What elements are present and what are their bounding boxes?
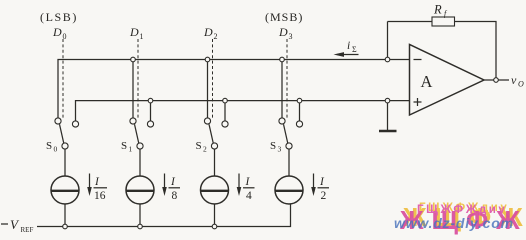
current source I/16 — [51, 174, 107, 205]
svg-text:v: v — [511, 73, 517, 87]
wire feedback top left segment — [388, 21, 433, 23]
svg-text:4: 4 — [246, 190, 252, 202]
wire S2 left throw drop — [207, 60, 209, 119]
node noninverting ground tap — [385, 98, 390, 103]
wire feedback left riser — [387, 22, 389, 58]
resistor Rf — [432, 17, 455, 26]
svg-text:3: 3 — [278, 145, 282, 154]
wire S3 left throw drop — [281, 60, 283, 119]
svg-text:(LSB): (LSB) — [40, 10, 78, 24]
wire I3 to rail — [37, 204, 291, 227]
svg-text:2: 2 — [203, 145, 207, 154]
wire D3 control (dashed) — [286, 39, 288, 118]
switch S1 — [121, 118, 154, 154]
node output — [494, 78, 499, 83]
wire I0 to rail — [64, 204, 66, 227]
wire D1 control (dashed) — [137, 39, 139, 118]
wire S1 right throw drop — [150, 101, 152, 121]
svg-text:Σ: Σ — [352, 45, 357, 54]
wire lower bus to op-amp noninverting input — [76, 101, 410, 121]
svg-text:3: 3 — [289, 32, 293, 41]
svg-text:S: S — [121, 140, 127, 152]
node junction bus1-S3 — [280, 57, 285, 62]
svg-text:2: 2 — [214, 32, 218, 41]
node rail-I0 — [63, 224, 68, 229]
svg-text:R: R — [433, 3, 442, 17]
svg-text:16: 16 — [94, 190, 106, 202]
svg-text:A: A — [421, 72, 433, 91]
op-amp A — [410, 45, 485, 116]
wire I2 to rail — [214, 204, 216, 227]
svg-text:2: 2 — [321, 190, 327, 202]
switch S2 — [196, 118, 229, 154]
ground — [379, 130, 397, 132]
node rail-I2 — [212, 224, 217, 229]
svg-text:D: D — [129, 25, 139, 39]
svg-text:REF: REF — [21, 226, 34, 234]
svg-text:S: S — [46, 140, 52, 152]
svg-text:(MSB): (MSB) — [265, 10, 303, 24]
svg-text:i: i — [347, 40, 350, 52]
node feedback tap on inverting bus — [385, 57, 390, 62]
wire I1 to rail — [139, 204, 141, 227]
switch S0 — [46, 118, 79, 154]
svg-text:S: S — [270, 140, 276, 152]
wire ground drop — [387, 103, 389, 131]
svg-text:S: S — [196, 140, 202, 152]
svg-text:www.dz-diy.com: www.dz-diy.com — [394, 215, 514, 231]
switch S3 — [270, 118, 303, 154]
wire S3 to source I3 — [288, 149, 290, 176]
wire D2 control (dashed) — [212, 39, 214, 118]
node junction bus2-S3 — [297, 98, 302, 103]
node junction bus1-S1 — [131, 57, 136, 62]
wire feedback top right segment — [455, 22, 497, 78]
svg-text:D: D — [203, 25, 213, 39]
svg-text:1: 1 — [140, 32, 144, 41]
wire S2 right throw drop — [224, 101, 226, 121]
current source I/4 — [201, 174, 255, 205]
node junction bus2-S1 — [148, 98, 153, 103]
current source I/2 — [275, 174, 329, 205]
current source I/8 — [126, 174, 180, 205]
svg-text:1: 1 — [129, 145, 133, 154]
label i-sigma with arrow — [334, 40, 359, 57]
wire S2 to source I2 — [214, 149, 216, 176]
svg-text:D: D — [278, 25, 288, 39]
label -VREF — [1, 217, 33, 234]
node junction bus1-S2 — [205, 57, 210, 62]
wire D0 control (dashed) — [62, 39, 64, 118]
watermark — [394, 202, 526, 235]
wire S0 to source I0 — [64, 149, 66, 176]
svg-text:8: 8 — [172, 190, 178, 202]
svg-text:0: 0 — [54, 145, 58, 154]
svg-text:O: O — [518, 80, 524, 89]
wire S1 to source I1 — [139, 149, 141, 176]
wire S3 right throw drop — [299, 101, 301, 121]
wire S1 left throw drop — [132, 60, 134, 119]
wire op-amp output — [484, 79, 509, 81]
wire top bus to op-amp inverting input — [58, 60, 410, 119]
node rail-I1 — [138, 224, 143, 229]
node junction bus2-S2 — [223, 98, 228, 103]
svg-text:D: D — [52, 25, 62, 39]
